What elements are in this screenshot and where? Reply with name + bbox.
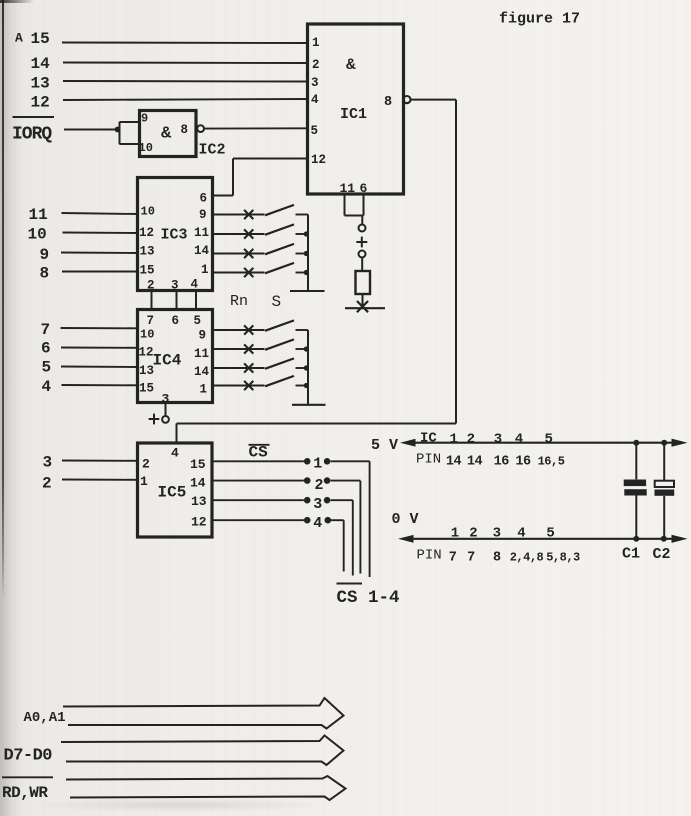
svg-text:IC: IC — [420, 431, 437, 447]
svg-text:9: 9 — [40, 246, 50, 264]
svg-text:12: 12 — [191, 515, 207, 530]
svg-text:14: 14 — [194, 365, 210, 379]
svg-text:2: 2 — [42, 475, 52, 493]
svg-text:4: 4 — [191, 278, 199, 292]
svg-text:IC5: IC5 — [158, 484, 187, 502]
svg-text:0 V: 0 V — [392, 511, 419, 528]
svg-text:A: A — [15, 31, 23, 46]
svg-text:IC4: IC4 — [153, 352, 182, 370]
svg-text:14: 14 — [31, 55, 51, 73]
svg-text:1: 1 — [451, 526, 459, 542]
svg-text:3: 3 — [43, 454, 53, 472]
svg-text:15: 15 — [140, 264, 155, 278]
svg-text:3: 3 — [494, 432, 502, 448]
svg-text:2: 2 — [469, 526, 477, 542]
svg-text:IC2: IC2 — [199, 142, 226, 159]
svg-text:3: 3 — [171, 279, 179, 293]
svg-text:3: 3 — [162, 392, 170, 407]
svg-text:2: 2 — [315, 477, 324, 494]
svg-text:13: 13 — [191, 494, 207, 509]
svg-text:2: 2 — [467, 432, 475, 448]
svg-text:PIN: PIN — [417, 548, 442, 564]
svg-text:IC1: IC1 — [340, 106, 367, 123]
svg-text:14: 14 — [446, 455, 462, 470]
svg-text:4: 4 — [517, 526, 525, 542]
svg-text:1: 1 — [200, 383, 208, 397]
svg-text:4: 4 — [311, 93, 319, 107]
svg-text:8: 8 — [493, 551, 501, 566]
svg-text:5: 5 — [546, 526, 554, 542]
svg-text:&: & — [161, 125, 172, 144]
svg-text:10: 10 — [140, 328, 154, 342]
svg-text:10: 10 — [141, 205, 155, 219]
svg-text:S: S — [272, 293, 282, 311]
svg-text:16,5: 16,5 — [538, 455, 565, 469]
svg-text:4: 4 — [42, 378, 52, 396]
svg-text:4: 4 — [171, 446, 179, 461]
svg-text:A0,A1: A0,A1 — [24, 710, 66, 726]
svg-text:Rn: Rn — [230, 293, 248, 310]
svg-text:RD,WR: RD,WR — [2, 784, 48, 802]
svg-text:7: 7 — [449, 551, 457, 566]
svg-text:PIN: PIN — [416, 452, 441, 468]
svg-text:6: 6 — [172, 314, 180, 328]
svg-text:10: 10 — [28, 226, 47, 244]
svg-text:5: 5 — [42, 359, 52, 377]
svg-text:figure 17: figure 17 — [499, 11, 580, 28]
svg-text:4: 4 — [313, 515, 322, 532]
svg-text:2: 2 — [312, 58, 320, 72]
svg-text:6: 6 — [41, 340, 51, 358]
svg-text:9: 9 — [141, 112, 148, 126]
svg-text:9: 9 — [199, 329, 207, 343]
svg-text:8: 8 — [40, 265, 50, 283]
svg-text:7: 7 — [147, 314, 155, 328]
svg-text:IC3: IC3 — [161, 227, 188, 244]
svg-text:6: 6 — [360, 181, 368, 196]
svg-text:3: 3 — [313, 496, 322, 513]
svg-text:10: 10 — [139, 141, 153, 155]
svg-text:11: 11 — [194, 226, 209, 240]
svg-text:15: 15 — [190, 457, 206, 472]
svg-text:11: 11 — [29, 206, 48, 224]
svg-text:16: 16 — [515, 455, 531, 470]
svg-text:15: 15 — [139, 382, 154, 396]
svg-text:5,8,3: 5,8,3 — [546, 551, 580, 565]
svg-text:11: 11 — [194, 347, 209, 361]
svg-text:C2: C2 — [653, 546, 671, 563]
svg-text:1: 1 — [201, 263, 209, 277]
svg-text:14: 14 — [190, 476, 206, 491]
svg-text:13: 13 — [140, 245, 155, 259]
svg-text:11: 11 — [340, 181, 356, 196]
svg-text:12: 12 — [311, 153, 326, 167]
svg-text:C1: C1 — [622, 546, 640, 563]
svg-text:8: 8 — [384, 95, 392, 110]
svg-text:12: 12 — [139, 226, 154, 240]
svg-text:5: 5 — [311, 124, 319, 138]
svg-text:3: 3 — [311, 76, 319, 90]
svg-text:3: 3 — [493, 526, 501, 542]
svg-text:6: 6 — [200, 192, 208, 206]
svg-text:2,4,8: 2,4,8 — [510, 551, 544, 565]
svg-text:7: 7 — [41, 321, 51, 339]
svg-text:1: 1 — [449, 432, 457, 448]
svg-text:14: 14 — [467, 455, 483, 470]
svg-text:7: 7 — [467, 551, 475, 566]
svg-text:9: 9 — [199, 208, 207, 222]
svg-text:CS 1-4: CS 1-4 — [337, 588, 400, 608]
svg-text:5: 5 — [194, 314, 202, 328]
svg-text:IORQ: IORQ — [12, 125, 52, 145]
svg-text:1: 1 — [312, 36, 320, 50]
svg-text:13: 13 — [31, 75, 50, 93]
svg-text:2: 2 — [147, 279, 155, 293]
svg-text:16: 16 — [494, 455, 510, 470]
svg-text:D7-D0: D7-D0 — [4, 747, 53, 766]
svg-text:2: 2 — [142, 457, 150, 472]
svg-text:12: 12 — [139, 346, 154, 360]
svg-text:&: & — [346, 56, 356, 74]
svg-text:14: 14 — [194, 244, 210, 258]
svg-text:5 V: 5 V — [371, 437, 398, 454]
svg-text:12: 12 — [31, 94, 50, 112]
svg-text:8: 8 — [181, 123, 189, 137]
svg-text:1: 1 — [313, 456, 322, 473]
svg-text:1: 1 — [140, 474, 148, 489]
svg-text:CS: CS — [249, 444, 269, 462]
svg-text:15: 15 — [31, 30, 50, 48]
svg-text:5: 5 — [544, 432, 552, 448]
svg-text:4: 4 — [515, 432, 523, 448]
